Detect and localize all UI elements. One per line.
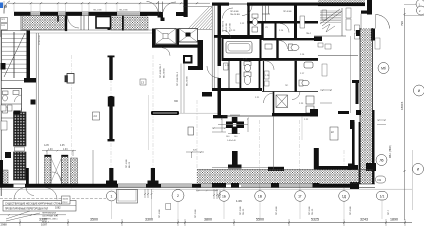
leader lines to bubbles — [224, 188, 344, 191]
vertical room line x302 — [301, 116, 303, 140]
entrance door arc right — [376, 15, 390, 29]
svg-text:МБ-1 (ПМЗ): МБ-1 (ПМЗ) — [390, 145, 392, 158]
svg-text:2: 2 — [177, 194, 179, 198]
bottom dimension line — [0, 222, 412, 224]
column box center-left — [67, 74, 74, 84]
elevator block with slot — [183, 55, 193, 64]
small label box right of block — [62, 196, 71, 204]
secondary margin line — [412, 150, 414, 210]
right dim ticks — [404, 13, 406, 172]
vertical wall stub at x123 — [122, 16, 124, 31]
svg-text:И1: И1 — [378, 178, 382, 182]
thin wall y91 right part — [262, 91, 318, 93]
axis line x71.5 — [71, 55, 73, 190]
cross column dim texts below — [226, 136, 238, 142]
wall T stub bottom of x219 wall — [213, 115, 228, 118]
lintel block above band — [268, 167, 284, 171]
svg-text:ПРОЕКТИРУЕМЫЕ ПЕРЕГОРОДКИ ГКЛ: ПРОЕКТИРУЕМЫЕ ПЕРЕГОРОДКИ ГКЛ — [5, 209, 49, 211]
ramp diagonal hatch (middle top) — [188, 7, 212, 29]
right stair treads — [320, 11, 341, 22]
window glazing lines between wall segments — [31, 13, 141, 14]
svg-text:4.05: 4.05 — [60, 145, 65, 147]
corridor double line — [35, 33, 37, 184]
room divider x93 — [92, 150, 94, 184]
room number boxes — [140, 79, 146, 85]
axis line x299 — [299, 120, 301, 192]
small legend boxes left edge — [1, 18, 8, 37]
x-room B outline — [179, 29, 198, 43]
washer boxes right — [306, 96, 314, 104]
black bar west of band B — [108, 16, 111, 30]
sink right unit — [304, 62, 313, 68]
cross column — [226, 117, 244, 134]
blue legend square — [0, 3, 3, 9]
window glazing bottom — [118, 185, 192, 186]
svg-text:1Г: 1Г — [298, 194, 302, 198]
window axis ticks below dim line — [14, 4, 140, 12]
hatch band bottom line — [21, 29, 161, 31]
vertical wall x295.5 top — [294, 5, 297, 40]
small black square below post — [161, 18, 165, 22]
dim cluster above piers — [42, 150, 76, 156]
svg-text:ПР-3 ВВ: ПР-3 ВВ — [240, 206, 242, 215]
svg-text:2988: 2988 — [1, 223, 8, 227]
double door center post — [158, 12, 164, 18]
door arcs left rooms — [15, 95, 22, 102]
wall stub left of corner — [361, 11, 372, 14]
svg-text:ВБ-25: ВБ-25 — [129, 161, 131, 168]
svg-text:360: 360 — [174, 100, 179, 103]
svg-text:ПБ-25: ПБ-25 — [243, 208, 245, 215]
main vertical wall x219 — [218, 3, 222, 67]
stair treads — [2, 34, 27, 73]
vertical wall x273.5 lower — [273, 92, 275, 117]
hatch strip left edge — [359, 28, 361, 122]
grid bubble x178 — [172, 190, 184, 202]
sink small mid — [265, 44, 272, 49]
horizontal wall y88 — [212, 88, 262, 91]
vent label column right of stair — [346, 8, 351, 30]
svg-text:3800: 3800 — [204, 218, 212, 222]
hatched wall band A (top-left) — [23, 16, 66, 30]
bottom dim ticks — [19, 222, 406, 224]
hatch strip right edge — [372, 28, 374, 184]
big bottom hatch band — [197, 170, 373, 185]
svg-text:790: 790 — [400, 21, 404, 26]
wall seg right of doors — [176, 12, 184, 16]
hatch band top edge — [197, 169, 372, 171]
top dimension line — [8, 2, 210, 4]
black bar x352 y120 — [350, 120, 355, 129]
right corner vertical wall — [367, 0, 372, 15]
svg-text:1В: 1В — [258, 194, 263, 198]
axis line x153 — [152, 55, 154, 192]
black column blocks on bottom wall — [212, 183, 226, 188]
svg-text:Мб: Мб — [381, 67, 386, 71]
core wall L-foot — [188, 66, 203, 70]
rotated text stack A — [39, 34, 189, 168]
vent shaft lines top — [262, 5, 270, 21]
black fixture left of stair — [1, 63, 6, 70]
svg-text:ПР-6 ВВ: ПР-6 ВВ — [350, 206, 352, 215]
door arc left — [147, 2, 159, 16]
shaft middle gap boxes — [15, 147, 25, 151]
west thin double wall of cluster — [211, 5, 213, 88]
stair cut diagonals — [320, 9, 340, 24]
svg-text:ПБ-1 ВВ: ПБ-1 ВВ — [93, 10, 102, 12]
horizontal wall y38 right — [263, 38, 318, 40]
stair right thick wall — [27, 31, 31, 81]
shaft double lines x81/x84 — [80, 16, 82, 30]
svg-text:ПБ-26 ВВ: ПБ-26 ВВ — [230, 14, 240, 16]
wall segment 1 — [14, 12, 31, 16]
door arc mid room — [280, 24, 289, 33]
door arc through x219 wall — [207, 66, 219, 78]
wall line below y116.5 — [273, 116, 275, 169]
svg-text:1.40x1.40: 1.40x1.40 — [227, 140, 237, 142]
door arcs below bottom wall — [14, 188, 26, 200]
svg-text:ПБ-2 ВВ: ПБ-2 ВВ — [119, 10, 128, 12]
bubble labels — [111, 194, 385, 198]
hatched wall band B — [111, 17, 148, 30]
small box right area — [330, 127, 338, 140]
wall seg left of doors — [140, 12, 147, 16]
grid bubble top right (double) — [416, 0, 424, 9]
vertical wall x263.5 — [263, 61, 265, 92]
parallel lower line — [21, 32, 161, 34]
dim cluster right of fin — [212, 127, 226, 132]
black bar right of shaft — [26, 168, 29, 185]
dim marks above band start — [186, 151, 204, 158]
toilet right lower — [299, 80, 309, 86]
black square end of y113 wall — [310, 109, 318, 117]
axis line x111 — [110, 55, 112, 192]
left outer wall line — [0, 30, 2, 196]
black door post x31 y99 — [31, 100, 36, 105]
vertical wall x295.5 lower — [295, 61, 297, 92]
black stub y92 — [202, 92, 212, 97]
grid bubble right 4 — [413, 164, 424, 175]
hatch pier 4 — [71, 158, 78, 184]
stair room boundary — [341, 8, 343, 36]
vertical wall x262.5 upper — [261, 24, 263, 41]
wall below right door — [371, 29, 375, 41]
svg-text:10.82: 10.82 — [63, 199, 69, 201]
elevator shaft box — [96, 17, 111, 29]
small fixture rects right room — [355, 25, 360, 39]
boxed label right top — [300, 16, 305, 28]
small marker box right of center — [321, 86, 323, 88]
dimension ticks top — [13, 2, 198, 4]
label box x93 y112 — [93, 112, 100, 120]
svg-text:ПР-4 ВВ ПБ-7: ПР-4 ВВ ПБ-7 — [160, 63, 162, 78]
door arc right — [163, 2, 177, 15]
grid bubble right 3 — [376, 155, 387, 166]
vertical wall x277.5 corridor — [276, 40, 278, 61]
shaft partition x88.5 — [88, 16, 90, 30]
top right exterior wall — [318, 3, 365, 7]
svg-text:3243: 3243 — [360, 218, 368, 222]
grid bubble x111 — [107, 191, 117, 201]
grid bubble x224 — [219, 191, 230, 202]
left column small boxes row — [1, 105, 12, 130]
tiny survey marker — [4, 5, 7, 8]
wall segment 2 — [40, 12, 58, 16]
core corner wall x200 — [198, 40, 204, 70]
axis line x259 — [259, 120, 261, 192]
door leaf line — [3, 1, 5, 14]
bench fixture left stalls — [224, 63, 229, 70]
T column x111 bottom — [109, 168, 113, 182]
svg-text:1/1: 1/1 — [380, 194, 385, 198]
horizontal wall y58 — [223, 58, 319, 61]
hatch pier 3 — [62, 155, 69, 184]
text block bottom left — [42, 213, 58, 224]
dim cluster right x380 — [377, 120, 386, 125]
horizontal wall y35 left — [214, 35, 263, 38]
svg-text:18015: 18015 — [400, 101, 404, 110]
left edge double line of band A — [20, 16, 22, 33]
grid bubble right 1 — [378, 63, 389, 74]
toilet 2 — [244, 62, 251, 72]
door arcs cluster — [223, 6, 301, 104]
svg-text:ПР-2: ПР-2 — [63, 202, 69, 204]
small box x188 y127 — [188, 127, 194, 135]
toilet 1 — [244, 72, 251, 85]
wall segment 3 — [66, 12, 83, 16]
svg-text:3330: 3330 — [39, 218, 47, 222]
svg-text:ПБ-25: ПБ-25 — [312, 208, 314, 215]
svg-text:А.05: А.05 — [44, 144, 49, 147]
svg-text:СУЩЕСТВУЮЩИЕ НЕСУЩИЕ КИРПИЧНЫЕ: СУЩЕСТВУЮЩИЕ НЕСУЩИЕ КИРПИЧНЫЕ СТЕНЫ — [5, 203, 62, 205]
x-room B black blob — [186, 33, 191, 37]
J wall x353 — [352, 122, 355, 166]
svg-text:ПР-2 ВВ ПБ-2: ПР-2 ВВ ПБ-2 — [177, 71, 179, 86]
svg-text:ВБ-25 ВВ: ВБ-25 ВВ — [187, 76, 189, 86]
rotated text stacks bottom — [159, 206, 390, 218]
glazing lines bottom right part — [201, 185, 313, 186]
leader extensions below bubbles — [112, 199, 383, 219]
svg-text:ПР-4 ВВ: ПР-4 ВВ — [276, 206, 278, 215]
svg-text:1082: 1082 — [55, 207, 61, 210]
svg-text:ПС: ПС — [285, 85, 289, 87]
stall wall x229 — [228, 61, 230, 88]
vertical wall x240 stalls — [240, 61, 242, 88]
stair mid rail — [13, 32, 15, 78]
svg-text:ПР-8 ВВ: ПР-8 ВВ — [230, 11, 239, 13]
fixtures stack small room top — [252, 14, 258, 32]
svg-text:ПР-5 ВВ: ПР-5 ВВ — [309, 206, 311, 215]
svg-text:ВБ-26 ВВ: ВБ-26 ВВ — [226, 23, 228, 32]
checker shaft — [14, 112, 27, 146]
WC fixtures left rooms — [3, 91, 20, 114]
U room X diagonals — [51, 158, 62, 182]
toilet right unit — [289, 44, 300, 51]
top exterior wall lines — [14, 11, 161, 13]
right rotated dim text — [400, 21, 404, 110]
axis line x197 — [196, 100, 198, 192]
column block left of strip — [348, 165, 358, 170]
fin end stubs — [108, 56, 115, 58]
corridor lines x181/184 — [180, 64, 182, 114]
shaft top black bits — [14, 111, 21, 115]
grid bubble rounded rect — [377, 192, 388, 201]
svg-text:Л6: Л6 — [379, 159, 383, 163]
ramp boundary lines — [183, 6, 212, 8]
x-room A outline — [156, 29, 177, 45]
right area dim ticks — [320, 90, 332, 104]
svg-text:5325: 5325 — [311, 218, 319, 222]
dashed line below wall left — [0, 198, 106, 200]
left bottom black edge — [0, 160, 3, 187]
entry door arc top-left — [4, 1, 10, 14]
wall segment 4 — [89, 12, 118, 16]
door leaf lines — [158, 1, 160, 12]
left column black box — [5, 152, 11, 158]
svg-text:ПР-2 ВВ: ПР-2 ВВ — [195, 209, 197, 218]
lower boundary of right rooms — [318, 55, 358, 57]
x-room A diagonals — [156, 29, 177, 45]
mid horizontal wall y21 — [247, 21, 318, 24]
stall mid partition — [249, 61, 251, 70]
small rect below x168 — [166, 204, 171, 210]
door arc core — [162, 48, 170, 56]
T column x151 bottom — [151, 168, 155, 182]
door arc row1 top — [223, 8, 234, 19]
bottom wall right section thick — [318, 184, 359, 188]
room label mid left — [294, 61, 296, 63]
T junction black on strip — [352, 80, 359, 83]
bathtub — [226, 42, 252, 54]
svg-text:1.03: 1.03 — [63, 149, 68, 151]
bathtub room walls — [223, 38, 261, 60]
label block rectangle — [3, 201, 76, 212]
svg-text:ПЕРЕМЫЧКИ: ПЕРЕМЫЧКИ — [42, 213, 56, 215]
stair diagonal direction line — [4, 33, 25, 77]
hatch strip right thick lower edge — [372, 110, 375, 184]
black wall blob below stair — [314, 37, 322, 42]
thin room line above band — [212, 166, 268, 168]
vertical wall stub at x58 — [57, 16, 59, 22]
sill line below bottom wall — [0, 188, 412, 190]
axis line x344 — [343, 150, 345, 192]
tick cluster left of bubble — [213, 189, 221, 199]
rotated text columns beside wall — [223, 20, 232, 32]
vertical wall x275.5 — [275, 24, 277, 39]
grid bubble x344 — [339, 191, 350, 202]
svg-text:ПР-1 ВВ: ПР-1 ВВ — [126, 159, 128, 168]
cluster tiny texts — [225, 11, 312, 121]
right vertical dimension line — [404, 8, 406, 220]
left small rooms walls — [1, 88, 22, 90]
stair room outline — [2, 31, 28, 81]
svg-text:ПР-8 ВВ: ПР-8 ВВ — [283, 11, 292, 13]
svg-text:ВБ-26 ВВ: ВБ-26 ВВ — [164, 68, 166, 78]
fin junction blob — [108, 97, 115, 107]
horizontal wall right-of-center y113 — [272, 113, 318, 116]
stair door blocks — [24, 78, 36, 83]
vertical wall stub at x66 — [65, 16, 67, 32]
grid bubble right 2 — [414, 85, 424, 96]
core horizontal wall y44.5 — [152, 45, 203, 48]
checker shaft lower part — [14, 152, 27, 180]
junction square mid strip — [366, 163, 376, 171]
black bit at hatch strip top — [356, 30, 360, 36]
svg-text:ПР-7: ПР-7 — [388, 209, 390, 215]
x-room A label box — [163, 34, 168, 39]
small boxed labels cluster — [236, 38, 380, 83]
svg-text:1: 1 — [111, 194, 113, 198]
svg-text:ПР-1 ВВ: ПР-1 ВВ — [159, 209, 161, 218]
hatch pier 1 — [3, 170, 8, 184]
top right hatched strip above wall — [318, 0, 365, 3]
door arc in U room — [52, 172, 61, 181]
svg-text:ПБ-2: ПБ-2 — [306, 33, 312, 35]
mini dim row left of band — [196, 190, 218, 191]
room bottom thin wall y116 — [223, 115, 273, 117]
svg-text:1890: 1890 — [390, 218, 398, 222]
wall segment 5 — [140, 12, 161, 16]
vertical wall x259 stalls — [259, 61, 261, 88]
column fin x111 — [109, 56, 112, 81]
U room interior lines — [50, 155, 52, 184]
porch box below wall — [117, 190, 138, 204]
vertical hatch strip right — [360, 28, 373, 184]
bottom wall thin lines full — [0, 183, 375, 185]
stair arrow zigzag — [322, 24, 335, 32]
tick cluster below column x151 — [144, 189, 153, 199]
vertical wall x248.5 upper — [247, 5, 249, 38]
vertical black bar x185 — [184, 0, 188, 17]
column T mid-bottom x234 — [232, 151, 238, 165]
room boundary line x350.5 — [350, 36, 352, 113]
door arc at shaft corridor — [68, 16, 80, 28]
svg-text:3300: 3300 — [145, 218, 153, 222]
cross column dim ticks — [218, 115, 249, 134]
bottom dim numbers — [39, 218, 398, 222]
svg-text:1.06: 1.06 — [236, 199, 242, 203]
leader diagonals — [6, 211, 40, 221]
x-room B diagonals — [179, 29, 198, 43]
fixture box corridor — [265, 71, 270, 86]
column bar x314 — [314, 148, 319, 170]
pier top caps — [45, 155, 52, 157]
grid bubble x260 — [255, 191, 266, 202]
shower square — [276, 95, 288, 108]
core vertical wall x177.5 — [177, 29, 180, 48]
hatch pier 2 — [45, 155, 52, 184]
grid bubble x300 — [295, 191, 306, 202]
core vertical wall x153.5 — [152, 29, 155, 48]
junction cluster y111 — [338, 111, 349, 114]
bottom wall of right room — [318, 166, 351, 170]
svg-text:1Д: 1Д — [342, 194, 347, 198]
svg-text:1.03: 1.03 — [48, 149, 53, 151]
svg-text:3500: 3500 — [90, 218, 98, 222]
small fixture boxes below stair — [318, 43, 331, 49]
bottom wall thick segments — [0, 184, 14, 188]
exterior wall top of cluster — [212, 3, 229, 6]
local dim line left — [0, 214, 66, 216]
column block lower strip — [350, 182, 359, 189]
horizontal wall bar x152-179 — [151, 111, 179, 115]
svg-text:ОТМ 0.00: ОТМ 0.00 — [39, 34, 41, 45]
